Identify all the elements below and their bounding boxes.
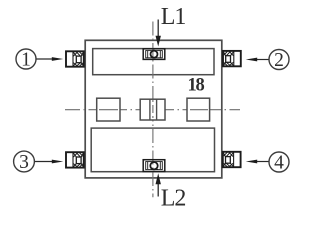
svg-text:1: 1 (21, 49, 31, 70)
balloon 4 (269, 152, 289, 172)
svg-text:4: 4 (274, 152, 284, 173)
vertical centerline (152, 22, 154, 198)
leader arrow 3 (35, 161, 53, 163)
leader arrow 2 (256, 59, 269, 61)
center terminal L1 (top) (143, 49, 165, 60)
right square (187, 98, 210, 121)
middle block inner line right (156, 99, 158, 120)
svg-text:L1: L1 (161, 4, 186, 30)
middle block centerline dot (152, 100, 154, 120)
screw terminal 4 (bottom-right) (223, 152, 241, 167)
leader arrow L1 (157, 20, 159, 38)
middle block inner line left (149, 99, 151, 120)
top compartment (93, 49, 214, 75)
left square center dash (99, 109, 118, 111)
center terminal L2 (bottom) (143, 160, 165, 172)
balloon 2 (269, 50, 289, 70)
svg-text:3: 3 (19, 152, 29, 173)
leader arrow 4 (256, 161, 269, 163)
horizontal centerline (65, 109, 240, 111)
bottom compartment (91, 128, 214, 172)
left square (97, 98, 120, 121)
middle block (140, 99, 165, 120)
leader arrow L2 (157, 184, 159, 197)
screw terminal 2 (top-right) (223, 51, 241, 66)
balloon 1 (16, 49, 36, 69)
screw terminal 3 (bottom-left) (66, 152, 84, 167)
body outline (85, 40, 222, 178)
screw terminal 1 (top-left) (66, 51, 84, 66)
balloon 3 (14, 151, 35, 172)
svg-text:L2: L2 (161, 186, 186, 212)
svg-text:2: 2 (274, 50, 284, 71)
leader arrow 1 (37, 58, 54, 60)
right square center dash (190, 109, 208, 111)
svg-text:18: 18 (188, 76, 205, 96)
